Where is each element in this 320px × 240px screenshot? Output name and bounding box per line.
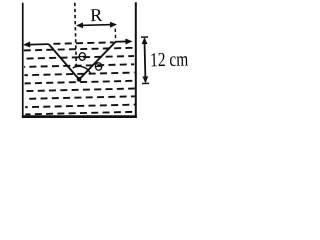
theta label upper (78, 53, 86, 61)
water surface dashes inside cone (53, 42, 114, 43)
apex angle arc (73, 66, 91, 74)
12 cm dimension arrow (141, 37, 149, 84)
cone axis dashed line (75, 3, 77, 68)
container bottom (22, 115, 137, 118)
theta label lower (95, 63, 103, 71)
svg-text:R: R (90, 5, 102, 25)
cone right slant side (78, 42, 116, 80)
water dashes (24, 48, 135, 115)
cone rim dashed line (114, 29, 116, 42)
container right wall (135, 2, 137, 118)
water surface arrow right (116, 38, 133, 44)
cone vertex dot (77, 77, 82, 82)
container left wall (22, 3, 24, 118)
water surface arrow left (23, 41, 49, 48)
cone left slant side (49, 43, 79, 80)
R dimension arrow (76, 22, 117, 29)
svg-text:12 cm: 12 cm (150, 48, 189, 71)
